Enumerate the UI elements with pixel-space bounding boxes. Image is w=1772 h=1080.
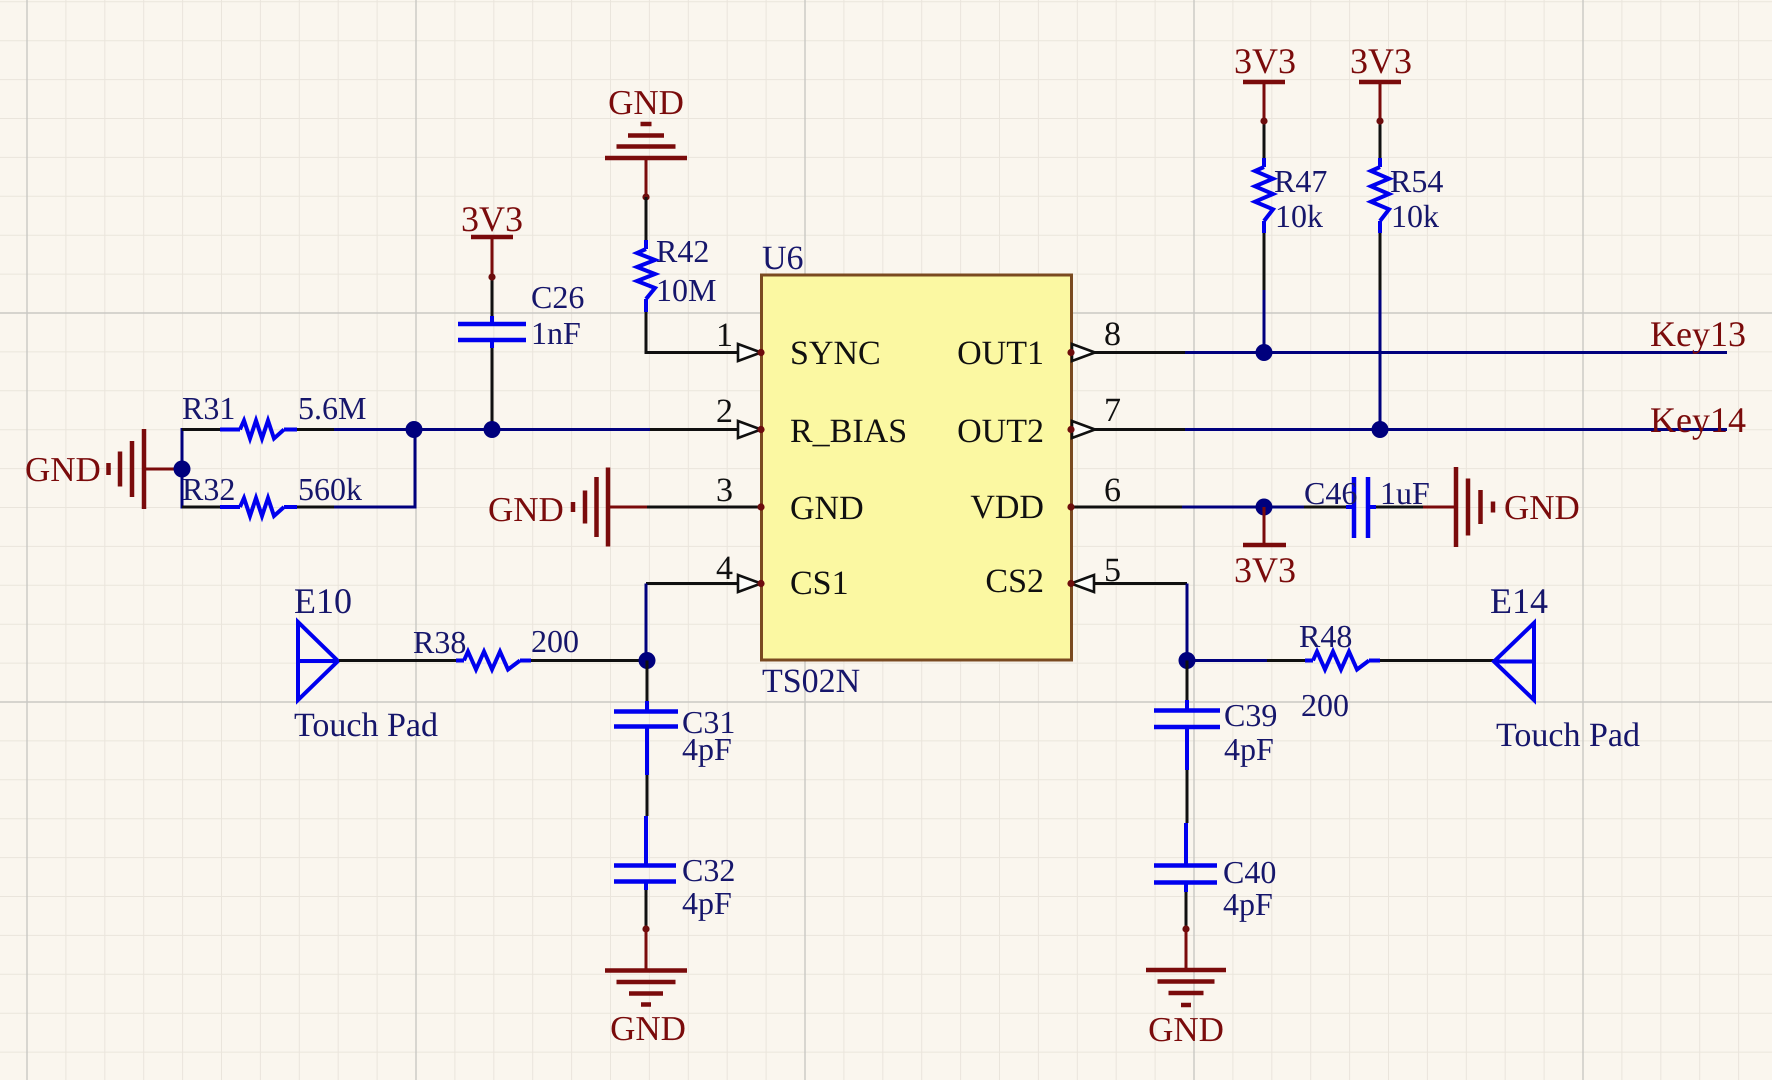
pin name VDD	[970, 489, 1044, 526]
wire R38 to CS1 node	[531, 659, 647, 662]
pin name OUT1	[957, 335, 1044, 372]
wire R47 to OUT1 net	[1263, 233, 1266, 353]
wire R42 to pin 1	[645, 312, 648, 354]
svg-text:560k: 560k	[298, 471, 362, 507]
wire left vertical (GND to R31/R32)	[181, 428, 184, 509]
pin number 3	[716, 472, 733, 509]
svg-text:5.6M: 5.6M	[298, 390, 366, 426]
pin 8 lead and output arrow	[1067, 344, 1185, 361]
svg-text:4: 4	[716, 550, 733, 587]
svg-text:C26: C26	[531, 279, 584, 315]
power symbol 3V3 (above C26)	[471, 237, 513, 276]
designator R54	[1390, 163, 1443, 199]
svg-text:3V3: 3V3	[1234, 550, 1296, 590]
power symbol 3V3 (above R54)	[1359, 82, 1401, 120]
resistor R32	[182, 498, 334, 516]
designator R47	[1274, 163, 1327, 199]
pin number 2	[716, 393, 733, 430]
designator E14	[1490, 581, 1548, 621]
svg-text:U6: U6	[762, 240, 804, 277]
ground power symbol (right of C46)	[1423, 467, 1493, 547]
resistor R38	[456, 652, 531, 670]
svg-text:GND: GND	[1504, 488, 1580, 527]
wire R32 to right vertical	[334, 430, 415, 509]
svg-text:C39: C39	[1224, 697, 1277, 733]
svg-text:R48: R48	[1299, 618, 1352, 654]
svg-text:4pF: 4pF	[682, 731, 732, 767]
touch pad E10	[298, 622, 338, 700]
svg-text:2: 2	[716, 393, 733, 430]
pin name CS2	[985, 563, 1044, 600]
capacitor C40	[1154, 823, 1217, 892]
wire OUT2 net to Key14	[1185, 428, 1727, 431]
ground power symbol (pin 3)	[573, 468, 647, 547]
ground power symbol (bottom right)	[1146, 930, 1226, 1005]
pin number 8	[1104, 316, 1121, 353]
svg-text:R32: R32	[182, 471, 235, 507]
net label 3V3 (below VDD wire)	[1234, 550, 1296, 590]
pin 2 lead and input arrow	[650, 421, 765, 438]
power symbol 3V3 (above R47)	[1243, 82, 1285, 120]
junction C26 on R_BIAS net	[484, 421, 501, 438]
wire R_BIAS net horizontal	[414, 428, 650, 431]
designator R32	[182, 471, 235, 507]
wire C32 to ground	[642, 890, 649, 933]
pin name GND	[790, 490, 864, 527]
junction left GND node	[174, 461, 191, 478]
svg-text:R31: R31	[182, 390, 235, 426]
svg-text:R38: R38	[413, 624, 466, 660]
svg-text:1nF: 1nF	[531, 315, 581, 351]
capacitor C26	[458, 316, 526, 348]
net label Key13	[1650, 314, 1746, 354]
resistor R31	[182, 421, 334, 439]
svg-text:C40: C40	[1223, 854, 1276, 890]
svg-text:R54: R54	[1390, 163, 1443, 199]
pin number 1	[716, 317, 733, 354]
value 10M	[656, 272, 716, 308]
designator C40	[1223, 854, 1276, 890]
resistor R48	[1305, 652, 1380, 670]
wire C26 to R_BIAS net	[491, 348, 494, 430]
svg-text:TS02N: TS02N	[762, 663, 860, 700]
net label GND (left)	[25, 450, 101, 489]
svg-text:3V3: 3V3	[461, 199, 523, 239]
wire pin 4 vertical to CS1 node	[645, 584, 648, 661]
value 1uF	[1380, 475, 1430, 511]
wire C31 to C32	[646, 775, 649, 816]
wire pin 5 vertical to CS2 node	[1186, 584, 1189, 661]
wire R31 to junction	[334, 428, 414, 431]
pin number 7	[1104, 392, 1121, 429]
designator R31	[182, 390, 235, 426]
touch pad E14	[1494, 623, 1534, 700]
junction VDD/3V3	[1256, 499, 1273, 516]
net label Key14	[1650, 400, 1746, 440]
value 10k (R47)	[1275, 198, 1323, 234]
designator C39	[1224, 697, 1277, 733]
svg-text:10k: 10k	[1391, 198, 1439, 234]
svg-text:GND: GND	[488, 490, 564, 529]
junction R47/OUT1	[1256, 344, 1273, 361]
resistor R47	[1255, 158, 1273, 233]
label Touch Pad (E10)	[294, 707, 438, 744]
wire CS1 node to C31	[646, 661, 649, 702]
wire R48 to E14	[1380, 659, 1494, 662]
svg-text:3: 3	[716, 472, 733, 509]
svg-text:VDD: VDD	[970, 489, 1044, 526]
svg-text:10k: 10k	[1275, 198, 1323, 234]
svg-text:GND: GND	[608, 83, 684, 122]
svg-text:7: 7	[1104, 392, 1121, 429]
capacitor C31	[614, 701, 678, 775]
pin name SYNC	[790, 335, 881, 372]
pin 6 lead	[1067, 503, 1182, 510]
designator R38	[413, 624, 466, 660]
ground power symbol (bottom left)	[605, 930, 687, 1005]
value 200 (R38)	[531, 623, 579, 659]
svg-text:4pF: 4pF	[1224, 731, 1274, 767]
svg-text:CS1: CS1	[790, 565, 849, 602]
capacitor C46	[1304, 477, 1423, 538]
svg-text:200: 200	[531, 623, 579, 659]
ground power symbol (left)	[109, 429, 183, 509]
wire 3V3 to R47	[1260, 117, 1267, 158]
wire CS2 node to R48	[1187, 659, 1305, 662]
designator R42	[656, 233, 709, 269]
wire VDD net	[1182, 506, 1304, 509]
svg-text:8: 8	[1104, 316, 1121, 353]
wire CS2 node to C39	[1186, 661, 1189, 701]
pin name R_BIAS	[790, 413, 907, 450]
designator C32	[682, 852, 735, 888]
svg-text:10M: 10M	[656, 272, 716, 308]
pin 4 lead and input arrow	[646, 575, 765, 592]
svg-text:3V3: 3V3	[1350, 41, 1412, 81]
svg-text:Key13: Key13	[1650, 314, 1746, 354]
value 1nF	[531, 315, 581, 351]
svg-text:CS2: CS2	[985, 563, 1044, 600]
value 4pF (C40)	[1223, 886, 1273, 922]
designator E10	[294, 581, 352, 621]
svg-text:Key14: Key14	[1650, 400, 1746, 440]
svg-text:GND: GND	[790, 490, 864, 527]
svg-text:1uF: 1uF	[1380, 475, 1430, 511]
capacitor C32	[614, 816, 676, 890]
svg-text:GND: GND	[25, 450, 101, 489]
svg-text:R42: R42	[656, 233, 709, 269]
svg-text:6: 6	[1104, 472, 1121, 509]
svg-text:C46: C46	[1304, 475, 1357, 511]
pin name CS1	[790, 565, 849, 602]
wire E10 to R38	[339, 659, 456, 662]
designator C26	[531, 279, 584, 315]
IC U6 body TS02N	[762, 275, 1072, 660]
net label GND (pin 3)	[488, 490, 564, 529]
wire OUT1 net to Key13	[1185, 351, 1727, 354]
svg-text:Touch Pad: Touch Pad	[294, 707, 438, 744]
svg-text:GND: GND	[1148, 1010, 1224, 1049]
pin 7 lead and output arrow	[1067, 421, 1185, 438]
wire 3V3 to C26	[488, 273, 495, 316]
ground power symbol (top, above R42)	[605, 124, 687, 201]
svg-text:GND: GND	[610, 1009, 686, 1048]
net label GND (bottom right)	[1148, 1010, 1224, 1049]
svg-text:E14: E14	[1490, 581, 1548, 621]
net label 3V3 (above C26)	[461, 199, 523, 239]
pin 5 lead and input arrow	[1067, 575, 1187, 592]
net label 3V3 (above R54)	[1350, 41, 1412, 81]
net label GND (right)	[1504, 488, 1580, 527]
value 5.6M	[298, 390, 366, 426]
value 200 (R48)	[1301, 687, 1349, 723]
label Touch Pad (E14)	[1496, 717, 1640, 754]
svg-text:200: 200	[1301, 687, 1349, 723]
wire C40 to ground	[1182, 892, 1189, 933]
svg-text:OUT2: OUT2	[957, 413, 1044, 450]
capacitor C39	[1154, 700, 1220, 770]
designator R48	[1299, 618, 1352, 654]
pin number 4	[716, 550, 733, 587]
designator C31	[682, 704, 735, 740]
net label 3V3 (above R47)	[1234, 41, 1296, 81]
wire GND to R42	[645, 197, 648, 240]
value 4pF (C39)	[1224, 731, 1274, 767]
svg-text:4pF: 4pF	[682, 885, 732, 921]
wire C39 to C40	[1186, 770, 1189, 823]
value 4pF (C32)	[682, 885, 732, 921]
svg-text:3V3: 3V3	[1234, 41, 1296, 81]
value TS02N	[762, 663, 860, 700]
svg-text:R_BIAS: R_BIAS	[790, 413, 907, 450]
wire R54 to OUT2 net	[1379, 233, 1382, 430]
designator U6	[762, 240, 804, 277]
value 10k (R54)	[1391, 198, 1439, 234]
pin number 6	[1104, 472, 1121, 509]
net label GND (top)	[608, 83, 684, 122]
resistor R54	[1371, 158, 1389, 233]
junction R54/OUT2	[1372, 421, 1389, 438]
svg-text:SYNC: SYNC	[790, 335, 881, 372]
pin name OUT2	[957, 413, 1044, 450]
net label GND (bottom left)	[610, 1009, 686, 1048]
value 560k	[298, 471, 362, 507]
junction CS1 node	[639, 652, 656, 669]
wire 3V3 to R54	[1376, 117, 1383, 158]
svg-text:Touch Pad: Touch Pad	[1496, 717, 1640, 754]
junction CS2 node	[1179, 652, 1196, 669]
svg-text:C32: C32	[682, 852, 735, 888]
junction R31/R32 node	[406, 421, 423, 438]
resistor R42	[637, 240, 655, 312]
power symbol 3V3 (below VDD wire)	[1243, 507, 1286, 545]
value 4pF (C31)	[682, 731, 732, 767]
pin 1 lead and input arrow	[646, 344, 765, 361]
pin 3 lead	[647, 503, 765, 510]
svg-text:4pF: 4pF	[1223, 886, 1273, 922]
designator C46	[1304, 475, 1357, 511]
svg-text:E10: E10	[294, 581, 352, 621]
svg-text:OUT1: OUT1	[957, 335, 1044, 372]
svg-text:R47: R47	[1274, 163, 1327, 199]
pin number 5	[1104, 552, 1121, 589]
svg-text:1: 1	[716, 317, 733, 354]
